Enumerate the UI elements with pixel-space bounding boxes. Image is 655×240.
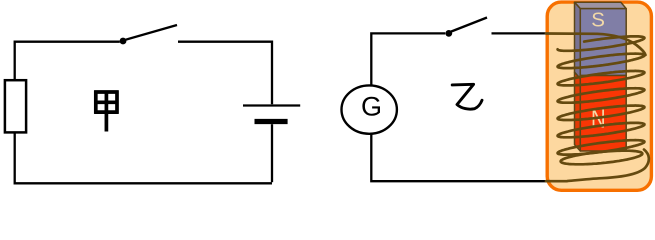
svg-text:S: S <box>591 9 605 32</box>
svg-text:G: G <box>361 92 382 122</box>
